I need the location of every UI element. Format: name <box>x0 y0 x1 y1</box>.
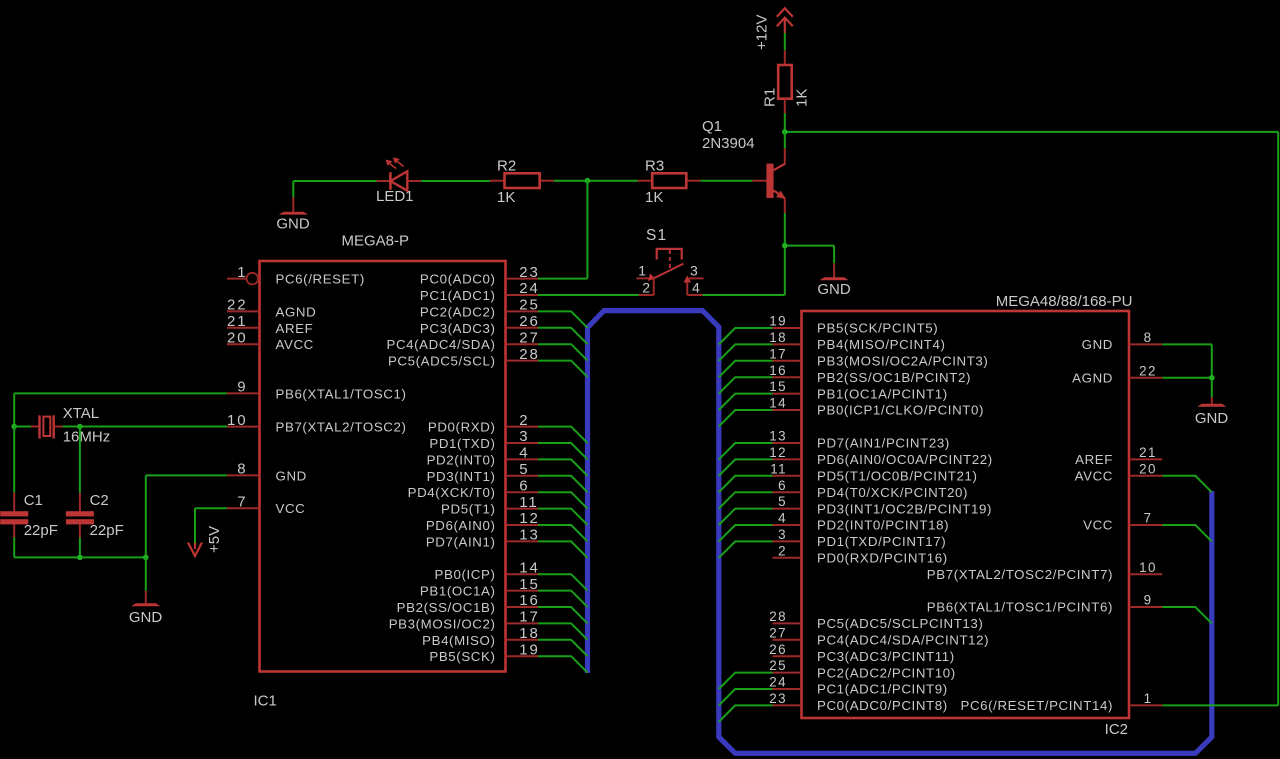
label IC1 pin number 23 <box>519 264 540 281</box>
junction J2 <box>782 129 788 135</box>
IC1 pin 3 PD1(TXD) stub <box>506 442 539 444</box>
label IC1 pin number 15 <box>519 576 540 593</box>
svg-text:12: 12 <box>769 445 787 460</box>
label IC2 pin number 11 <box>770 461 787 476</box>
resistor R2 pins <box>490 180 554 182</box>
IC1 pin 8 GND stub <box>227 474 260 476</box>
svg-text:6: 6 <box>519 477 529 494</box>
svg-text:PC5(ADC5/SCL): PC5(ADC5/SCL) <box>388 354 496 369</box>
label IC1 pin name PD5(T1) <box>441 502 495 517</box>
wire IC2 pin 7 VCC to bus <box>1162 525 1212 541</box>
label IC1 pin name PB5(SCK) <box>429 649 495 664</box>
svg-text:18: 18 <box>769 330 787 345</box>
IC1 pin 15 PB1(OC1A) stub <box>506 590 539 592</box>
svg-text:XTAL: XTAL <box>63 405 99 422</box>
svg-text:MEGA8-P: MEGA8-P <box>342 233 410 250</box>
IC1 pin 9 PB6(XTAL1/TOSC1) stub <box>227 392 260 394</box>
svg-text:PC2(ADC2): PC2(ADC2) <box>420 304 496 319</box>
svg-text:16MHz: 16MHz <box>63 428 111 445</box>
svg-text:28: 28 <box>519 346 540 363</box>
svg-text:4: 4 <box>778 511 787 526</box>
label S1 pin 1 <box>638 263 646 279</box>
label IC2 pin number 20 <box>1139 461 1157 476</box>
wire GND1 to LED1 <box>293 181 376 197</box>
wire bus to IC2 pin 3 <box>719 541 773 557</box>
label IC2 pin name PB2(SS/OC1B/PCINT2) <box>817 370 971 385</box>
label R2 value 1K <box>497 189 515 206</box>
svg-text:PD1(TXD): PD1(TXD) <box>429 436 495 451</box>
wire Q1 emitter to node J3 <box>784 213 786 246</box>
wire IC1 pin 13 to bus <box>538 541 588 557</box>
label MEGA48/88/168-PU <box>996 293 1133 310</box>
IC1 pin 22 AGND stub <box>227 310 260 312</box>
svg-text:1: 1 <box>237 264 247 281</box>
svg-text:PB2(SS/OC1B/PCINT2): PB2(SS/OC1B/PCINT2) <box>817 370 971 385</box>
IC1 pin 13 PD7(AIN1) stub <box>506 540 539 542</box>
svg-text:PB5(SCK/PCINT5): PB5(SCK/PCINT5) <box>817 321 938 336</box>
label R2 <box>497 158 516 175</box>
label IC2 pin name PD3(INT1/OC2B/PCINT19) <box>817 501 992 516</box>
wire IC1 pin 5 to bus <box>538 476 588 492</box>
svg-text:2: 2 <box>519 412 529 429</box>
svg-text:R1: R1 <box>762 88 779 107</box>
label IC2 pin number 4 <box>778 511 787 526</box>
svg-text:15: 15 <box>519 576 540 593</box>
label IC2 pin number 26 <box>769 642 787 657</box>
svg-text:PB1(OC1A/PCINT1): PB1(OC1A/PCINT1) <box>817 386 948 401</box>
svg-text:6: 6 <box>778 478 787 493</box>
svg-text:14: 14 <box>519 559 540 576</box>
junction J8 <box>143 555 149 561</box>
svg-text:Q1: Q1 <box>702 118 722 135</box>
label IC1 pin number 1 <box>237 264 247 281</box>
svg-text:PB0(ICP): PB0(ICP) <box>435 567 496 582</box>
IC2 pin 20 AVCC stub <box>1129 475 1162 477</box>
svg-text:PB1(OC1A): PB1(OC1A) <box>420 584 496 599</box>
wire IC1 pin 26 to bus <box>538 328 588 344</box>
label IC2 pin number 25 <box>769 658 787 673</box>
IC1 pin 23 PC0(ADC0) stub <box>506 278 539 280</box>
svg-text:PD5(T1/OC0B/PCINT21): PD5(T1/OC0B/PCINT21) <box>817 469 978 484</box>
svg-text:25: 25 <box>519 297 540 314</box>
label GND4 <box>129 609 163 626</box>
svg-text:AVCC: AVCC <box>276 337 314 352</box>
IC2 pin 2 PD0(RXD/PCINT16) stub <box>773 557 802 559</box>
label IC2 pin name PC6(/RESET/PCINT14) <box>960 698 1113 713</box>
svg-text:PD4(XCK/T0): PD4(XCK/T0) <box>408 485 496 500</box>
label IC2 pin number 15 <box>769 379 787 394</box>
svg-text:1K: 1K <box>497 189 515 206</box>
wire IC1 pin 25 to bus <box>538 311 588 327</box>
IC1 pin 14 PB0(ICP) stub <box>506 573 539 575</box>
svg-text:26: 26 <box>769 642 787 657</box>
label IC2 pin number 22 <box>1139 363 1157 378</box>
label IC1 <box>254 693 277 710</box>
svg-text:PC0(ADC0/PCINT8): PC0(ADC0/PCINT8) <box>817 698 948 713</box>
wire IC1 pin 27 to bus <box>538 344 588 360</box>
label IC1 pin number 28 <box>519 346 540 363</box>
wire bus to IC2 pin 18 <box>719 344 773 360</box>
label Q1 value 2N3904 <box>702 135 755 152</box>
svg-text:4: 4 <box>519 445 529 462</box>
label IC1 pin number 8 <box>237 461 247 478</box>
resistor R3 body <box>652 173 686 188</box>
label IC1 pin number 13 <box>519 527 540 544</box>
wire IC2 pin 8 GND to node J4 <box>1162 344 1212 377</box>
label IC1 pin number 18 <box>519 625 540 642</box>
wire J2 to Q1 collector <box>784 132 786 149</box>
label IC2 pin number 5 <box>778 494 787 509</box>
svg-text:12: 12 <box>519 510 540 527</box>
label R1 <box>762 88 779 107</box>
wire J3 to GND2 <box>785 246 834 264</box>
label IC2 pin number 28 <box>769 609 787 624</box>
wire node J2 to right edge <box>785 131 1278 133</box>
IC2 pin 6 PD4(T0/XCK/PCINT20) stub <box>773 491 802 493</box>
svg-text:PD6(AIN0): PD6(AIN0) <box>426 518 496 533</box>
svg-text:LED1: LED1 <box>376 188 414 205</box>
svg-text:PB4(MISO): PB4(MISO) <box>422 633 495 648</box>
label IC2 pin number 19 <box>769 314 787 329</box>
IC1 pin 19 PB5(SCK) stub <box>506 655 539 657</box>
supply +5V symbol <box>188 543 202 557</box>
IC1 pin 1 PC6(/RESET) stub <box>227 273 258 285</box>
switch S1 pin 4 <box>684 276 703 296</box>
svg-text:PD1(TXD/PCINT17): PD1(TXD/PCINT17) <box>817 534 946 549</box>
IC2 pin 27 PC4(ADC4/SDA/PCINT12) stub <box>773 639 802 641</box>
svg-text:PB7(XTAL2/TOSC2/PCINT7): PB7(XTAL2/TOSC2/PCINT7) <box>927 567 1113 582</box>
svg-text:PC5(ADC5/SCLPCINT13): PC5(ADC5/SCLPCINT13) <box>817 616 983 631</box>
svg-text:PC3(ADC3): PC3(ADC3) <box>420 321 496 336</box>
svg-text:1K: 1K <box>645 189 663 206</box>
op IC2 MEGA48/88/168-PU box <box>802 311 1130 718</box>
wire bus to IC2 pin 13 <box>719 443 773 459</box>
svg-text:10: 10 <box>1139 560 1157 575</box>
wire IC1 pin 16 to bus <box>538 607 588 623</box>
label IC2 pin name PD5(T1/OC0B/PCINT21) <box>817 469 978 484</box>
IC1 pin 4 PD2(INT0) stub <box>506 458 539 460</box>
ground GND2 <box>820 263 849 280</box>
svg-text:PD7(AIN1/PCINT23): PD7(AIN1/PCINT23) <box>817 436 950 451</box>
label IC2 pin number 17 <box>769 346 787 361</box>
IC1 pin 24 PC1(ADC1) stub <box>506 294 539 296</box>
IC2 pin 11 PD5(T1/OC0B/PCINT21) stub <box>773 475 802 477</box>
label IC1 pin number 16 <box>519 592 540 609</box>
wire bus to IC2 pin 4 <box>719 525 773 541</box>
label IC1 pin number 20 <box>227 329 248 346</box>
svg-text:10: 10 <box>227 412 248 429</box>
svg-text:15: 15 <box>769 379 787 394</box>
svg-text:PB3(MOSI/OC2): PB3(MOSI/OC2) <box>389 616 496 631</box>
label IC2 pin name PB4(MISO/PCINT4) <box>817 337 946 352</box>
wire R2 to R3 (node J1) <box>554 180 638 182</box>
label IC2 pin name PC4(ADC4/SDA/PCINT12) <box>817 633 989 648</box>
svg-text:PB7(XTAL2/TOSC2): PB7(XTAL2/TOSC2) <box>276 420 407 435</box>
svg-text:24: 24 <box>519 280 540 297</box>
capacitor C2 <box>66 493 94 538</box>
svg-text:PB6(XTAL1/TOSC1/PCINT6): PB6(XTAL1/TOSC1/PCINT6) <box>927 600 1113 615</box>
svg-text:28: 28 <box>769 609 787 624</box>
wire bus to IC2 pin 16 <box>719 377 773 393</box>
label IC2 pin name PD4(T0/XCK/PCINT20) <box>817 485 968 500</box>
svg-text:PC1(ADC1): PC1(ADC1) <box>420 288 496 303</box>
label IC2 pin number 23 <box>769 691 787 706</box>
wire IC1 pin 28 to bus <box>538 361 588 377</box>
wire J1 to IC1 pin 23 <box>538 181 587 279</box>
transistor Q1 <box>753 148 786 213</box>
IC2 pin 16 PB2(SS/OC1B/PCINT2) stub <box>773 376 802 378</box>
bus B1 (blue net bus) <box>588 311 1212 754</box>
supply +12V symbol <box>777 8 793 33</box>
svg-text:23: 23 <box>519 264 540 281</box>
svg-text:27: 27 <box>519 329 540 346</box>
label IC1 pin number 3 <box>519 428 529 445</box>
switch S1 pin 2 <box>639 277 654 295</box>
label IC1 pin name GND <box>276 468 307 483</box>
label IC1 pin number 26 <box>519 313 540 330</box>
svg-text:22: 22 <box>227 297 248 314</box>
label IC2 pin name PB6(XTAL1/TOSC1/PCINT6) <box>927 600 1113 615</box>
svg-text:GND: GND <box>129 609 163 626</box>
svg-text:AGND: AGND <box>1072 371 1113 386</box>
wire IC1 pin 2 to bus <box>538 427 588 443</box>
svg-text:20: 20 <box>1139 461 1157 476</box>
label IC2 pin name PD2(INT0/PCINT18) <box>817 518 949 533</box>
label XTAL <box>63 405 99 422</box>
wire bus to IC2 pin 23 <box>719 705 773 721</box>
IC1 pin 16 PB2(SS/OC1B) stub <box>506 606 539 608</box>
label IC2 pin name PC0(ADC0/PCINT8) <box>817 698 948 713</box>
wire IC1 pin 8 net <box>146 475 227 557</box>
label IC2 pin number 9 <box>1144 593 1153 608</box>
IC1 pin 2 PD0(RXD) stub <box>506 426 539 428</box>
svg-text:17: 17 <box>769 346 787 361</box>
svg-text:13: 13 <box>769 429 787 444</box>
label IC2 pin number 3 <box>778 527 787 542</box>
wire IC1 pin 9 net <box>14 393 227 426</box>
label IC1 pin name PD4(XCK/T0) <box>408 485 496 500</box>
label IC1 pin number 22 <box>227 297 248 314</box>
wire S1 pin 2 to IC1 pin 24 <box>538 294 639 296</box>
wire right edge vertical <box>1277 132 1279 706</box>
svg-text:7: 7 <box>1144 511 1153 526</box>
IC1 pin 6 PD4(XCK/T0) stub <box>506 491 539 493</box>
svg-text:5: 5 <box>519 461 529 478</box>
label IC2 pin name VCC <box>1083 518 1113 533</box>
label IC1 pin name PD0(RXD) <box>428 420 496 435</box>
wire IC1 pin 11 to bus <box>538 509 588 525</box>
svg-text:5: 5 <box>778 494 787 509</box>
label IC1 pin number 7 <box>237 493 247 510</box>
label IC1 pin name PD2(INT0) <box>427 452 496 467</box>
svg-text:PD3(INT1): PD3(INT1) <box>427 469 496 484</box>
svg-text:PD0(RXD/PCINT16): PD0(RXD/PCINT16) <box>817 551 948 566</box>
junction J7 <box>77 555 83 561</box>
IC2 pin 9 PB6(XTAL1/TOSC1/PCINT6) stub <box>1129 606 1162 608</box>
label IC2 pin number 27 <box>769 625 787 640</box>
IC1 pin 12 PD6(AIN0) stub <box>506 524 539 526</box>
label IC1 pin number 25 <box>519 297 540 314</box>
svg-text:PB2(SS/OC1B): PB2(SS/OC1B) <box>397 600 496 615</box>
label IC2 pin name AGND <box>1072 371 1113 386</box>
svg-text:22pF: 22pF <box>24 522 58 539</box>
IC2 pin 1 PC6(/RESET/PCINT14) stub <box>1129 704 1162 706</box>
label IC1 pin name AVCC <box>276 337 314 352</box>
svg-text:R3: R3 <box>645 158 664 175</box>
svg-text:VCC: VCC <box>1083 518 1113 533</box>
wire bus to IC2 pin 15 <box>719 394 773 410</box>
label IC2 pin name PB7(XTAL2/TOSC2/PCINT7) <box>927 567 1113 582</box>
wire IC1 pin 4 to bus <box>538 459 588 475</box>
label S1 pin 3 <box>690 263 698 279</box>
svg-text:AREF: AREF <box>1075 452 1113 467</box>
IC1 pin 17 PB3(MOSI/OC2) stub <box>506 622 539 624</box>
wire IC2 pin 20 AVCC to bus <box>1162 476 1212 492</box>
svg-text:AREF: AREF <box>276 321 314 336</box>
label IC1 pin number 19 <box>519 641 540 658</box>
wire R3 to Q1 base <box>701 180 753 182</box>
label IC2 <box>1105 721 1128 738</box>
svg-text:VCC: VCC <box>276 501 306 516</box>
IC2 pin 3 PD1(TXD/PCINT17) stub <box>773 540 802 542</box>
label IC2 pin number 14 <box>769 396 787 411</box>
wire J5 down to C1 <box>13 427 15 493</box>
svg-text:AGND: AGND <box>276 304 317 319</box>
label IC1 pin number 14 <box>519 559 540 576</box>
label GND1 <box>276 216 310 233</box>
wire XTAL to IC1 pin 10 <box>63 426 227 428</box>
label IC1 pin number 27 <box>519 329 540 346</box>
IC1 pin 20 AVCC stub <box>227 343 260 345</box>
label IC1 pin name PC0(ADC0) <box>420 272 496 287</box>
IC2 pin 21 AREF stub <box>1129 458 1162 460</box>
capacitor C1 <box>0 493 28 538</box>
label IC2 pin number 18 <box>769 330 787 345</box>
label IC1 pin name PB6(XTAL1/TOSC1) <box>276 386 407 401</box>
svg-text:PB6(XTAL1/TOSC1): PB6(XTAL1/TOSC1) <box>276 386 407 401</box>
wire IC1 pin 19 to bus <box>538 656 588 672</box>
svg-text:22: 22 <box>1139 363 1157 378</box>
label IC1 pin number 24 <box>519 280 540 297</box>
wire bus to IC2 pin 17 <box>719 361 773 377</box>
svg-text:PD2(INT0/PCINT18): PD2(INT0/PCINT18) <box>817 518 949 533</box>
svg-text:11: 11 <box>770 461 787 476</box>
label IC1 pin number 11 <box>519 494 538 511</box>
wire R1 to node J2 <box>784 114 786 132</box>
wire IC1 pin 6 to bus <box>538 492 588 508</box>
resistor R1 pin bottom <box>784 99 786 114</box>
label IC1 pin name PC4(ADC4/SDA) <box>386 337 495 352</box>
svg-text:19: 19 <box>769 314 787 329</box>
IC2 pin 14 PB0(ICP1/CLKO/PCINT0) stub <box>773 409 802 411</box>
svg-text:1: 1 <box>638 263 646 279</box>
svg-text:2: 2 <box>642 280 650 296</box>
svg-text:PB5(SCK): PB5(SCK) <box>429 649 495 664</box>
label IC1 pin name PB1(OC1A) <box>420 584 496 599</box>
svg-text:1: 1 <box>1144 691 1153 706</box>
svg-text:18: 18 <box>519 625 540 642</box>
label IC2 pin name PD0(RXD/PCINT16) <box>817 551 948 566</box>
wire bus to IC2 pin 24 <box>719 689 773 705</box>
svg-text:22pF: 22pF <box>90 522 124 539</box>
label IC2 pin name PD1(TXD/PCINT17) <box>817 534 946 549</box>
IC1 pin 26 PC3(ADC3) stub <box>506 327 539 329</box>
switch S1 pin 1 <box>636 274 655 282</box>
svg-text:23: 23 <box>769 691 787 706</box>
label IC1 pin name PB0(ICP) <box>435 567 496 582</box>
wire bus to IC2 pin 6 <box>719 492 773 508</box>
label IC2 pin number 12 <box>769 445 787 460</box>
svg-text:PC2(ADC2/PCINT10): PC2(ADC2/PCINT10) <box>817 665 956 680</box>
label IC1 pin name AGND <box>276 304 317 319</box>
wire bus to IC2 pin 19 <box>719 328 773 344</box>
svg-text:2: 2 <box>778 543 787 558</box>
label IC1 pin name PD6(AIN0) <box>426 518 496 533</box>
wire IC1 pin 7 net <box>195 508 227 543</box>
svg-text:IC1: IC1 <box>254 693 277 710</box>
svg-text:PD6(AIN0/OC0A/PCINT22): PD6(AIN0/OC0A/PCINT22) <box>817 452 993 467</box>
svg-text:+12V: +12V <box>754 15 771 50</box>
label IC1 pin number 10 <box>227 412 248 429</box>
switch S1 pin 3 <box>689 277 704 279</box>
wire IC1 pin 3 to bus <box>538 443 588 459</box>
junction J5 <box>11 424 17 430</box>
label GND2 <box>817 281 851 298</box>
label IC2 pin name PC2(ADC2/PCINT10) <box>817 665 956 680</box>
label IC2 pin number 1 <box>1144 691 1153 706</box>
IC1 pin 18 PB4(MISO) stub <box>506 639 539 641</box>
label IC2 pin number 7 <box>1144 511 1153 526</box>
label IC2 pin number 13 <box>769 429 787 444</box>
label IC2 pin name AVCC <box>1075 469 1113 484</box>
label IC2 pin number 6 <box>778 478 787 493</box>
IC2 pin 28 PC5(ADC5/SCLPCINT13) stub <box>773 622 802 624</box>
label IC2 pin number 2 <box>778 543 787 558</box>
svg-text:16: 16 <box>519 592 540 609</box>
wire IC2 pin 9 to bus <box>1162 607 1212 623</box>
label IC2 pin name PD7(AIN1/PCINT23) <box>817 436 950 451</box>
label IC1 pin name PC1(ADC1) <box>420 288 496 303</box>
wire bus to IC2 pin 5 <box>719 509 773 525</box>
junction J3 <box>782 243 788 249</box>
label C1 value 22pF <box>24 522 58 539</box>
IC2 pin 26 PC3(ADC3/PCINT11) stub <box>773 655 802 657</box>
svg-text:PD2(INT0): PD2(INT0) <box>427 452 496 467</box>
svg-text:3: 3 <box>778 527 787 542</box>
wire J3 down to S1 pin 4 <box>703 246 785 295</box>
label IC1 pin name PD1(TXD) <box>429 436 495 451</box>
label IC1 pin name PD3(INT1) <box>427 469 496 484</box>
label XTAL value 16MHz <box>63 428 111 445</box>
svg-text:19: 19 <box>519 641 540 658</box>
svg-text:GND: GND <box>1082 337 1113 352</box>
wire C2 to bottom rail <box>79 538 81 558</box>
svg-text:S1: S1 <box>646 227 667 244</box>
label IC2 pin name PC5(ADC5/SCLPCINT13) <box>817 616 983 631</box>
svg-text:17: 17 <box>519 609 540 626</box>
IC2 pin 23 PC0(ADC0/PCINT8) stub <box>773 704 802 706</box>
svg-text:26: 26 <box>519 313 540 330</box>
label R1 value 1K <box>794 89 811 107</box>
IC1 pin 21 AREF stub <box>227 327 260 329</box>
wire IC2 pin 22 AGND to node J4 <box>1162 377 1212 379</box>
label MEGA8-P <box>342 233 410 250</box>
label S1 <box>646 227 667 244</box>
IC2 pin 17 PB3(MOSI/OC2A/PCINT3) stub <box>773 360 802 362</box>
svg-text:4: 4 <box>692 280 700 296</box>
svg-text:+5V: +5V <box>206 526 223 553</box>
IC2 pin 22 AGND stub <box>1129 377 1162 379</box>
